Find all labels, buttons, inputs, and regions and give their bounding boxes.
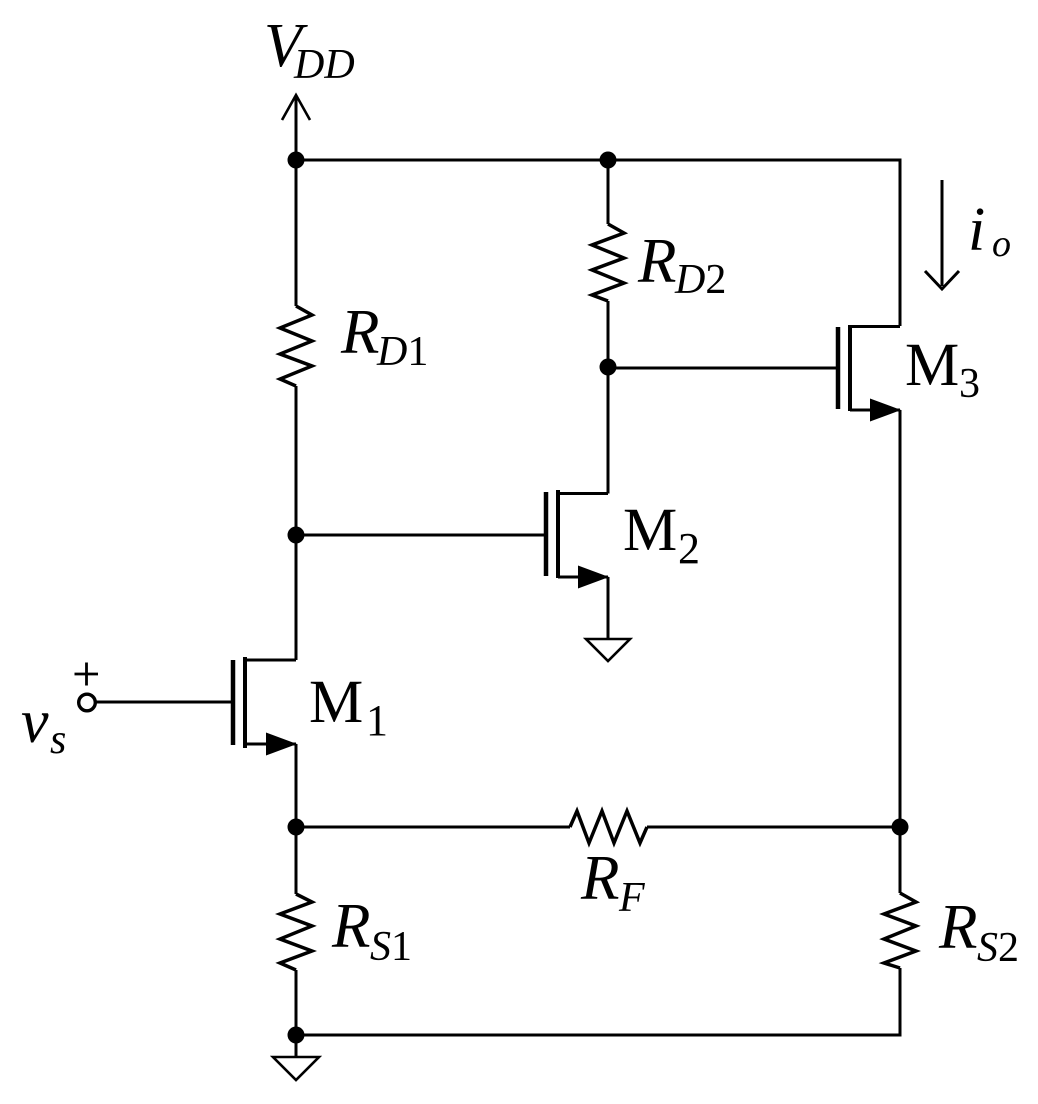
wire M3 source drop <box>899 410 902 827</box>
svg-text:M: M <box>309 669 363 736</box>
svg-text:2: 2 <box>678 524 700 573</box>
svg-text:R: R <box>580 843 619 913</box>
svg-text:S1: S1 <box>370 924 412 970</box>
transistor M1 <box>233 657 296 748</box>
node top-left <box>288 152 305 169</box>
svg-text:i: i <box>968 196 985 264</box>
wire RF right <box>647 826 900 829</box>
wire top rail <box>296 159 900 162</box>
node bottom-left <box>288 1027 305 1044</box>
node top-middle <box>600 152 617 169</box>
wire M3 gate lead <box>608 367 836 370</box>
resistor RD2 <box>592 160 624 367</box>
wire RF left <box>296 826 570 829</box>
resistor RF <box>570 811 647 843</box>
input terminal circle <box>79 694 96 711</box>
resistor RS2 <box>884 827 916 1037</box>
svg-text:1: 1 <box>366 696 388 745</box>
ground under M2 <box>586 639 630 661</box>
ground bottom <box>273 1057 319 1080</box>
svg-text:M: M <box>623 497 677 564</box>
wire M2 source drop <box>607 577 610 639</box>
svg-text:v: v <box>21 688 49 756</box>
ground stem bottom <box>295 1035 298 1057</box>
svg-text:R: R <box>331 891 370 961</box>
svg-text:o: o <box>992 223 1011 265</box>
wire M2 gate lead <box>296 534 544 537</box>
svg-text:R: R <box>938 892 977 962</box>
svg-text:M: M <box>905 332 959 399</box>
svg-text:3: 3 <box>959 361 980 407</box>
svg-text:D1: D1 <box>376 329 428 375</box>
svg-text:S2: S2 <box>977 925 1019 971</box>
wire M1 gate lead <box>96 701 231 704</box>
transistor M3 <box>838 325 900 411</box>
svg-text:DD: DD <box>293 42 355 88</box>
wire right drop to M3 drain <box>899 159 902 327</box>
node M1 source / RF left <box>288 819 305 836</box>
svg-text:R: R <box>637 226 676 296</box>
VDD supply arrow <box>282 95 310 160</box>
wire left rail lower <box>295 386 298 660</box>
svg-text:D2: D2 <box>674 257 726 303</box>
resistor RS1 <box>280 827 312 1035</box>
resistor RD1 <box>280 306 312 386</box>
wire M1 source drop <box>295 744 298 827</box>
node RD1 bottom / M2 gate <box>288 527 305 544</box>
svg-text:F: F <box>618 875 645 921</box>
current io arrow <box>925 180 959 289</box>
svg-text:s: s <box>50 717 66 763</box>
node RD2 bottom / M3 gate <box>600 359 617 376</box>
node RF right / M3 source <box>892 819 909 836</box>
wire left rail upper <box>295 160 298 306</box>
svg-text:R: R <box>340 297 379 367</box>
plus sign <box>75 663 99 686</box>
transistor M2 <box>546 367 608 578</box>
wire bottom rail <box>296 1034 902 1037</box>
